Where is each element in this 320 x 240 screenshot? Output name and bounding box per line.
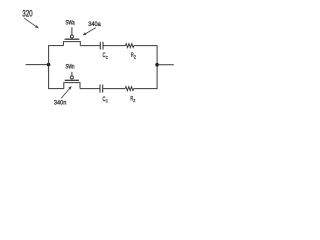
wire: right vertical — [156, 46, 158, 89]
wire: bottom row, junction to SWn — [48, 88, 64, 90]
transistor SWn channel hump — [64, 83, 80, 89]
svg-text:Z: Z — [134, 55, 136, 61]
node: left junction — [47, 63, 51, 67]
lead-line arrow for 320 — [24, 18, 39, 28]
svg-text:320: 320 — [22, 8, 33, 18]
capacitor Cc (top) plates — [100, 42, 103, 50]
wire: Rz to top-right corner — [134, 45, 158, 47]
transistor SWa gate bar — [65, 38, 80, 40]
svg-text:340a: 340a — [88, 21, 101, 28]
wire: right output stub — [157, 64, 174, 66]
transistor SWn gate lead — [71, 72, 73, 76]
wire: SWa to top capacitor — [80, 45, 100, 47]
wire: Rz to bottom-right corner — [134, 88, 158, 90]
svg-text:C: C — [106, 99, 109, 105]
resistor Rz (top) zigzag — [125, 44, 133, 48]
svg-text:SWa: SWa — [65, 20, 75, 27]
node: right junction — [155, 63, 159, 67]
resistor Rz (bottom) zigzag — [125, 87, 133, 91]
wire: left input stub — [26, 64, 49, 66]
wire: SWn to bottom capacitor — [80, 88, 100, 90]
wire: left vertical — [48, 46, 50, 89]
svg-text:340n: 340n — [54, 100, 67, 107]
wire: top row, junction to SWa — [48, 45, 63, 47]
transistor SWn gate bar — [65, 79, 79, 81]
transistor SWn gate circle — [70, 76, 73, 79]
svg-text:C: C — [106, 55, 109, 61]
lead-line arrow for 340a — [83, 28, 96, 36]
lead-line arrow for 340n — [61, 86, 71, 98]
capacitor Cc (bottom) plates — [100, 85, 103, 93]
svg-text:SWn: SWn — [66, 64, 75, 71]
wire: top capacitor to Rz — [104, 45, 126, 47]
transistor SWa channel hump — [63, 42, 80, 46]
transistor SWa gate circle — [70, 35, 73, 38]
wire: bottom capacitor to Rz — [103, 88, 125, 90]
transistor SWa gate lead — [71, 27, 73, 35]
svg-text:Z: Z — [133, 98, 135, 104]
